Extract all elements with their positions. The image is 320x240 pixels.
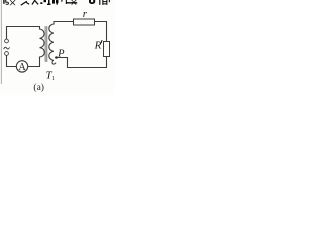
svg-text:1: 1 (52, 75, 55, 82)
svg-text:(a): (a) (33, 82, 44, 93)
svg-text:r: r (83, 8, 88, 20)
svg-text:P: P (57, 49, 65, 60)
svg-text:A: A (18, 62, 26, 73)
svg-text:R: R (94, 40, 102, 52)
